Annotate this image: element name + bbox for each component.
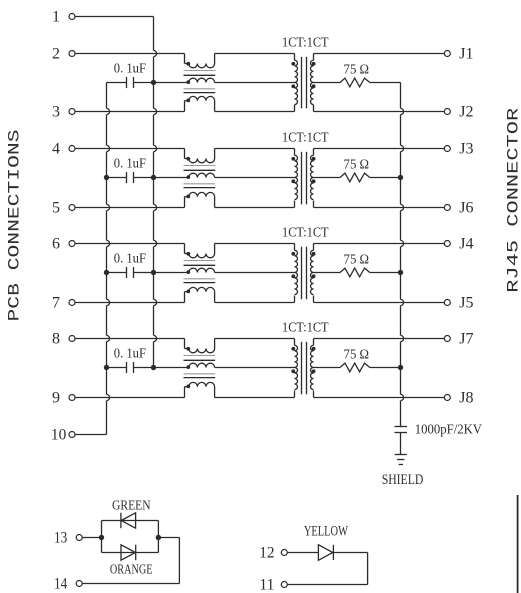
choke CM3 bottom winding lead right [214, 292, 216, 303]
node resistor R3 bus junction [398, 270, 403, 275]
wire center-tap bus to choke CM3 middle winding [154, 272, 189, 274]
page border fragment right edge [517, 495, 519, 593]
transformer T3 core [301, 247, 303, 299]
svg-text:13: 13 [54, 529, 67, 546]
pin 2 terminal [69, 51, 75, 57]
choke CM4 top winding [189, 349, 215, 353]
wire pin10 to cap bus [75, 434, 106, 436]
choke CM1 core upper [184, 70, 216, 72]
svg-text:J3: J3 [459, 140, 473, 157]
wire choke CM2 bottom to transformer T2 [215, 207, 295, 209]
wire choke CM2 top to transformer T2 [215, 148, 295, 150]
node resistor R2 bus junction [398, 175, 403, 180]
choke CM3 bottom winding [189, 287, 215, 291]
wire choke CM1 middle to transformer T1 primary center tap [215, 82, 295, 84]
choke CM3 bottom winding lead left [184, 292, 186, 303]
transformer T1 primary dot lower [291, 84, 295, 88]
choke CM3 top winding lead right [214, 244, 216, 254]
node cap C2 left junction [104, 175, 109, 180]
svg-text:75 Ω: 75 Ω [344, 252, 370, 267]
wire transformer to J3 [314, 148, 445, 150]
choke CM2 top winding lead right [214, 149, 216, 159]
choke CM3 core lower [184, 278, 216, 280]
transformer T3 primary winding [294, 244, 296, 251]
wire choke CM1 top to transformer T1 [215, 53, 295, 55]
svg-text:1CT:1CT: 1CT:1CT [282, 226, 329, 241]
wire resistor R3 to shield bus [370, 272, 401, 274]
node cap C3 left junction [104, 270, 109, 275]
choke CM4 bottom winding [189, 382, 215, 386]
node cap C4 left junction [104, 365, 109, 370]
wire orange led bottom branch [102, 552, 159, 554]
choke CM1 middle winding [189, 78, 215, 82]
choke CM1 top winding [189, 64, 215, 68]
svg-text:1CT:1CT: 1CT:1CT [282, 131, 329, 146]
choke CM4 middle winding [189, 363, 215, 367]
node cap C2 right junction [151, 175, 156, 180]
choke CM2 bottom winding [189, 192, 215, 196]
capacitor C1 left lead [107, 82, 127, 84]
wire resistor R2 to shield bus [370, 177, 401, 179]
svg-text:J1: J1 [459, 45, 473, 62]
svg-text:6: 6 [52, 235, 60, 252]
choke CM2 bottom winding dot [186, 195, 190, 199]
svg-text:GREEN: GREEN [112, 498, 151, 513]
wire choke CM3 top to transformer T3 [215, 243, 295, 245]
wire center-tap bus to choke CM4 middle winding [154, 367, 189, 369]
wire resistor R4 to shield bus [370, 367, 401, 369]
svg-text:4: 4 [52, 140, 60, 157]
choke CM2 core upper [184, 165, 216, 167]
resistor R1 body [340, 78, 370, 87]
rj45 pin J2 terminal [444, 109, 450, 115]
choke CM3 middle winding dot [186, 270, 190, 274]
wire pin5 to choke CM2 bottom [75, 207, 184, 209]
capacitor C4 plates [126, 362, 128, 373]
wire center-tap bus to choke CM2 middle winding [154, 177, 189, 179]
svg-text:J4: J4 [459, 235, 473, 252]
svg-text:14: 14 [54, 575, 67, 592]
resistor R2 body [340, 173, 370, 182]
transformer T2 secondary dot lower [312, 179, 316, 183]
capacitor C3 left lead [107, 272, 127, 274]
wire to pin 14 [82, 583, 179, 585]
wire led loop left [101, 521, 103, 553]
transformer T3 secondary dot lower [312, 274, 316, 278]
rj45 pin J6 terminal [444, 205, 450, 211]
choke CM4 top winding lead left [184, 339, 186, 349]
svg-text:2: 2 [52, 45, 60, 62]
node cap C4 right junction [151, 365, 156, 370]
pin 10 terminal [69, 432, 75, 438]
svg-text:J2: J2 [459, 103, 473, 120]
wire transformer to J5 [314, 302, 445, 304]
choke CM3 top winding dot [186, 252, 190, 256]
transformer T3 secondary winding [313, 244, 315, 251]
capacitor C2 right lead [134, 177, 154, 179]
rj45 pin J3 terminal [444, 146, 450, 152]
wire transformer T4 secondary center tap to resistor R4 [314, 367, 341, 369]
transformer T4 primary dot top [291, 347, 295, 351]
choke CM1 bottom winding lead left [184, 101, 186, 112]
node cap C3 right junction [151, 270, 156, 275]
svg-text:12: 12 [259, 544, 274, 561]
transformer T2 primary winding [294, 149, 296, 156]
rj45 pin J4 terminal [444, 241, 450, 247]
wire right vertical bus (pin1/center-tap bus) [154, 17, 157, 368]
choke CM3 bottom winding dot [186, 290, 190, 294]
svg-text:9: 9 [52, 389, 60, 406]
choke CM2 top winding lead left [184, 149, 186, 159]
wire resistor R1 to shield bus [370, 82, 401, 84]
node led left junction [99, 535, 104, 540]
wire choke CM1 bottom to transformer T1 [215, 111, 295, 113]
choke CM2 bottom winding lead left [184, 197, 186, 208]
svg-text:J6: J6 [459, 199, 473, 216]
wire yellow led to pin11 corner [333, 552, 367, 554]
svg-text:1000pF/2KV: 1000pF/2KV [415, 423, 482, 438]
capacitor C3 plates [126, 267, 128, 278]
svg-text:1CT:1CT: 1CT:1CT [282, 36, 329, 51]
wire choke CM4 middle to transformer T4 primary center tap [215, 367, 295, 369]
svg-text:0. 1uF: 0. 1uF [114, 157, 146, 172]
svg-text:75 Ω: 75 Ω [344, 62, 370, 77]
choke CM2 top winding dot [186, 157, 190, 161]
svg-text:10: 10 [51, 426, 66, 443]
svg-text:0. 1uF: 0. 1uF [114, 252, 146, 267]
pin 9 terminal [69, 395, 75, 401]
wire choke CM3 middle to transformer T3 primary center tap [215, 272, 295, 274]
choke CM1 core lower [184, 88, 216, 90]
svg-text:8: 8 [52, 330, 60, 347]
svg-text:PCB CONNECTIONS: PCB CONNECTIONS [6, 130, 24, 322]
transformer T3 primary dot lower [291, 274, 295, 278]
resistor R4 body [340, 363, 370, 372]
wire led loop right [157, 521, 159, 553]
led D2 orange body [121, 545, 135, 560]
wire pin4 to choke CM2 top [75, 148, 184, 150]
capacitor C1 plates [126, 77, 128, 88]
svg-text:SHIELD: SHIELD [382, 472, 424, 488]
transformer T1 secondary dot top [312, 62, 316, 66]
wire transformer to J6 [314, 207, 445, 209]
wire resistor bus to shield cap [401, 83, 404, 427]
wire pin1 to node bus [75, 16, 153, 18]
svg-text:YELLOW: YELLOW [304, 524, 349, 540]
choke CM4 bottom winding lead right [214, 387, 216, 398]
wire pin8 to choke CM4 top [75, 338, 184, 340]
transformer T1 primary dot top [291, 62, 295, 66]
rj45 pin J5 terminal [444, 300, 450, 306]
svg-text:75 Ω: 75 Ω [344, 157, 370, 172]
node led right junction [156, 535, 161, 540]
capacitor C2 plates [126, 172, 128, 183]
pin 1 terminal [69, 14, 75, 20]
pin 7 terminal [69, 300, 75, 306]
pin 11 terminal [281, 582, 287, 588]
choke CM2 middle winding dot [186, 175, 190, 179]
choke CM2 middle winding [189, 173, 215, 177]
wire pin6 to choke CM3 top [75, 243, 184, 245]
svg-text:ORANGE: ORANGE [110, 562, 153, 577]
choke CM1 middle winding dot [186, 80, 190, 84]
svg-text:7: 7 [52, 294, 60, 311]
pin 6 terminal [69, 241, 75, 247]
wire pin3 to choke CM1 bottom [75, 111, 184, 113]
choke CM2 bottom winding lead right [214, 197, 216, 208]
wire pin9 to choke CM4 bottom [75, 397, 184, 399]
choke CM2 core lower [184, 183, 216, 185]
transformer T1 secondary winding [313, 54, 315, 61]
capacitor C3 right lead [134, 272, 154, 274]
svg-text:11: 11 [259, 576, 274, 593]
transformer T2 primary dot top [291, 157, 295, 161]
choke CM3 middle winding [189, 268, 215, 272]
wire transformer to J4 [314, 243, 445, 245]
choke CM2 top winding [189, 159, 215, 163]
choke CM1 top winding lead left [184, 54, 186, 64]
led D3 yellow body [318, 545, 332, 561]
svg-text:1: 1 [52, 8, 60, 25]
wire cap C5 to shield ground [400, 433, 402, 455]
choke CM4 top winding lead right [214, 339, 216, 349]
wire pin13 to led node [82, 537, 102, 539]
choke CM1 bottom winding dot [186, 99, 190, 103]
wire green led top branch [102, 520, 159, 522]
transformer T4 core [301, 342, 303, 395]
choke CM4 bottom winding lead left [184, 387, 186, 398]
pin 14 terminal [76, 581, 82, 587]
svg-text:RJ45 CONNECTOR: RJ45 CONNECTOR [505, 108, 521, 293]
svg-text:1CT:1CT: 1CT:1CT [282, 321, 329, 336]
wire pin2 to choke CM1 top [75, 53, 184, 55]
wire center-tap bus to choke CM1 middle winding [154, 82, 189, 84]
transformer T1 secondary dot lower [312, 84, 316, 88]
wire choke CM2 middle to transformer T2 primary center tap [215, 177, 295, 179]
wire transformer T1 secondary center tap to resistor R1 [314, 82, 341, 84]
transformer T4 primary dot lower [291, 369, 295, 373]
transformer T2 primary dot lower [291, 179, 295, 183]
transformer T2 core [301, 152, 303, 205]
wire transformer to J7 [314, 338, 445, 340]
transformer T4 secondary dot top [312, 347, 316, 351]
choke CM3 core upper [184, 260, 216, 262]
resistor R3 body [340, 268, 370, 277]
wire transformer to J2 [314, 111, 445, 113]
choke CM4 bottom winding dot [186, 385, 190, 389]
svg-text:J7: J7 [459, 330, 473, 347]
led D1 green body [121, 513, 135, 528]
rj45 pin J8 terminal [444, 395, 450, 401]
choke CM1 bottom winding lead right [214, 101, 216, 112]
wire to pin 11 [287, 584, 368, 586]
capacitor C5 1000pF/2KV plates [395, 426, 408, 428]
wire choke CM3 bottom to transformer T3 [215, 302, 295, 304]
choke CM3 top winding lead left [184, 244, 186, 254]
wire led node to pin14 corner [158, 537, 179, 539]
capacitor C4 left lead [107, 367, 127, 369]
svg-text:75 Ω: 75 Ω [344, 347, 370, 362]
wire transformer to J8 [314, 397, 445, 399]
pin 4 terminal [69, 146, 75, 152]
wire choke CM4 top to transformer T4 [215, 338, 295, 340]
choke CM4 core upper [184, 355, 216, 357]
svg-text:J5: J5 [459, 294, 473, 311]
rj45 pin J1 terminal [444, 51, 450, 57]
wire pin7 to choke CM3 bottom [75, 302, 184, 304]
transformer T3 secondary dot top [312, 252, 316, 256]
capacitor C4 right lead [134, 367, 154, 369]
capacitor C1 right lead [134, 82, 154, 84]
shield ground symbol [395, 454, 407, 456]
choke CM1 bottom winding [189, 96, 215, 100]
wire left vertical bus (pin10/cap bus) [107, 83, 110, 435]
pin 12 terminal [281, 550, 287, 556]
svg-text:0. 1uF: 0. 1uF [114, 347, 146, 362]
capacitor C2 left lead [107, 177, 127, 179]
choke CM1 top winding dot [186, 62, 190, 66]
svg-text:5: 5 [52, 199, 60, 216]
transformer T2 secondary winding [313, 149, 315, 156]
choke CM1 top winding lead right [214, 54, 216, 64]
transformer T3 primary dot top [291, 252, 295, 256]
wire pin12 to yellow led [287, 552, 318, 554]
pin 13 terminal [76, 535, 82, 541]
choke CM3 top winding [189, 254, 215, 258]
choke CM4 top winding dot [186, 347, 190, 351]
wire transformer T3 secondary center tap to resistor R3 [314, 272, 341, 274]
transformer T4 secondary winding [313, 339, 315, 346]
transformer T1 core [301, 57, 303, 109]
transformer T4 secondary dot lower [312, 369, 316, 373]
wire choke CM4 bottom to transformer T4 [215, 397, 295, 399]
rj45 pin J7 terminal [444, 336, 450, 342]
transformer T4 primary winding [294, 339, 296, 346]
node resistor R4 bus junction [398, 365, 403, 370]
pin 3 terminal [69, 109, 75, 115]
transformer T2 secondary dot top [312, 157, 316, 161]
pin 5 terminal [69, 205, 75, 211]
choke CM4 middle winding dot [186, 365, 190, 369]
transformer T1 primary winding [294, 54, 296, 61]
node cap C1 right junction [151, 80, 156, 85]
wire transformer T2 secondary center tap to resistor R2 [314, 177, 341, 179]
choke CM4 core lower [184, 373, 216, 375]
pin 8 terminal [69, 336, 75, 342]
svg-text:J8: J8 [459, 389, 473, 406]
svg-text:0. 1uF: 0. 1uF [114, 62, 146, 77]
wire transformer to J1 [314, 53, 445, 55]
svg-text:3: 3 [52, 103, 60, 120]
